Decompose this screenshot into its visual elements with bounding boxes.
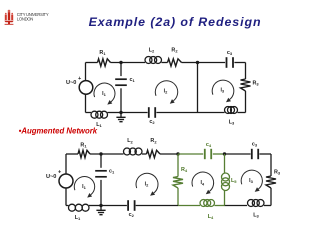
- wire: right edge lower segment (circuit 2): [270, 188, 272, 206]
- capacitor C2 (circuit 2): [128, 200, 135, 211]
- wire: L2 to R2: [162, 62, 168, 64]
- inductor L5 (circuit 2): [222, 173, 230, 191]
- wire: right edge lower segment (circuit 1): [245, 91, 247, 113]
- logo crest: [4, 10, 13, 24]
- wire: L1 to bottom-left corner (circuit 1): [86, 112, 92, 114]
- plus polarity mark (circuit 2): [58, 170, 62, 176]
- capacitor C3 (circuit 2): [252, 149, 258, 159]
- svg-text:L3: L3: [229, 120, 235, 126]
- label L3 (circuit 2): [253, 212, 259, 218]
- wire: R2 to node B: [182, 62, 198, 64]
- inductor L2 (circuit 1): [145, 57, 162, 64]
- label L5 (circuit 2): [231, 178, 237, 184]
- label R1 (circuit 2): [80, 143, 87, 149]
- svg-text:U~0: U~0: [66, 80, 76, 86]
- capacitor C1 (circuit 2): [95, 171, 107, 177]
- resistor R4 branch: upper wire (green, circuit 2): [177, 154, 179, 177]
- loop current I3 arrow (circuit 1): [212, 80, 234, 102]
- svg-text:L3: L3: [253, 212, 259, 218]
- svg-text:I4: I4: [200, 180, 204, 186]
- wire: C1 branch upper (circuit 2): [100, 154, 102, 168]
- node A junction dot (circuit 1): [119, 61, 122, 64]
- wire: R2 to node D (circuit 2): [160, 153, 178, 155]
- wire: R1 to node A: [111, 62, 146, 64]
- wire: ground node to L1 (circuit 1): [108, 112, 122, 114]
- wire: ground node to L1 (circuit 2): [89, 205, 101, 207]
- wire: L3 to node G (circuit 2): [225, 205, 248, 207]
- wire: L1 to bottom-left corner (circuit 2): [66, 205, 69, 207]
- inductor L3 (circuit 2): [248, 200, 265, 207]
- inductor L4 (circuit 2): [200, 200, 215, 207]
- loop current I4 arrow (circuit 2): [192, 172, 214, 194]
- wire: node E to C3 (circuit 2): [225, 153, 251, 155]
- label L1 (circuit 1): [96, 122, 102, 128]
- wire: left edge upper segment (circuit 2): [65, 154, 67, 174]
- svg-text:+: +: [78, 76, 82, 82]
- svg-text:+: +: [58, 170, 62, 176]
- capacitor C1 (circuit 1): [115, 79, 127, 85]
- loop current I2 arrow (circuit 1): [155, 81, 177, 104]
- svg-text:LONDON: LONDON: [17, 17, 33, 22]
- wire: C2 to ground node (circuit 2): [101, 205, 127, 207]
- svg-text:L2: L2: [149, 48, 155, 54]
- label R1 (circuit 1): [99, 50, 106, 56]
- wire: right edge upper segment (circuit 2): [270, 154, 272, 176]
- svg-text:R3: R3: [274, 170, 281, 176]
- svg-text:c3: c3: [252, 142, 258, 148]
- wire: C1 branch lower (circuit 1): [120, 88, 122, 112]
- wire: mid branch to C2 (circuit 1): [156, 112, 197, 114]
- wire: R1 to node C (circuit 2): [90, 153, 124, 155]
- wire: left edge upper segment (circuit 1): [85, 63, 87, 81]
- resistor R2 (circuit 2): [147, 150, 161, 157]
- wire: node B to C3: [198, 62, 226, 64]
- label I3 (circuit 1): [220, 88, 224, 94]
- capacitor C2 (circuit 1): [149, 107, 155, 118]
- svg-text:U~0: U~0: [46, 174, 56, 180]
- resistor R4 (circuit 2): [173, 177, 183, 189]
- wire: c1 top-left corner to R1: [86, 62, 98, 64]
- wire: bottom-right corner to L3 (circuit 2): [264, 205, 271, 207]
- ground node junction dot (circuit 2): [99, 204, 102, 207]
- capacitor C4 (circuit 2): [205, 149, 211, 159]
- svg-text:c3: c3: [227, 50, 233, 56]
- wire: R4 branch lower (green, circuit 2): [177, 188, 179, 206]
- label L2 (circuit 1): [149, 48, 155, 54]
- svg-text:L5: L5: [231, 178, 237, 184]
- resistor R1 (circuit 2): [78, 150, 90, 157]
- svg-text:R4: R4: [181, 167, 188, 173]
- wire: L2 to R2 (circuit 2): [142, 153, 147, 155]
- voltage source U~0 (circuit 2): [59, 174, 73, 188]
- label C3 (circuit 1): [227, 50, 233, 56]
- svg-text:R2: R2: [171, 48, 178, 54]
- wire: C1 branch upper (circuit 1): [120, 63, 122, 77]
- ground node junction dot (circuit 1): [119, 111, 122, 114]
- wire: node D to C4 (green, circuit 2): [178, 153, 203, 155]
- wire: L5 branch lower (green, circuit 2): [224, 191, 226, 206]
- svg-text:Example (2a) of Redesign: Example (2a) of Redesign: [89, 15, 262, 29]
- svg-text:L2: L2: [127, 138, 133, 144]
- plus polarity mark (circuit 1): [78, 76, 82, 82]
- label I1 (circuit 2): [82, 184, 86, 190]
- loop current I3 arrow (circuit 2): [241, 170, 262, 192]
- svg-text:R1: R1: [99, 50, 106, 56]
- voltage source U~0 (circuit 1): [79, 81, 93, 95]
- svg-text:L1: L1: [75, 215, 81, 221]
- wire: C2 to ground node (circuit 1): [121, 112, 148, 114]
- title: Example (2a) of Redesign: [89, 15, 262, 29]
- svg-text:I1: I1: [102, 91, 106, 97]
- wire: node F to C2 (circuit 2): [136, 205, 178, 207]
- loop current I2 arrow (circuit 2): [136, 173, 158, 195]
- loop current I1 arrow (circuit 2): [74, 176, 94, 197]
- svg-text:c1: c1: [130, 77, 136, 83]
- svg-text:R3: R3: [253, 81, 260, 87]
- label L3 (circuit 1): [229, 120, 235, 126]
- logo text CITY UNIVERSITY LONDON: [17, 12, 49, 22]
- label R3 (circuit 2): [274, 170, 281, 176]
- label C1 (circuit 2): [109, 169, 115, 175]
- label C4 (circuit 2): [206, 142, 212, 148]
- wire: middle vertical branch (circuit 1): [197, 63, 199, 113]
- svg-text:c2: c2: [129, 212, 135, 218]
- wire: bottom-right corner to L3: [238, 112, 246, 114]
- label C2 (circuit 1): [149, 119, 155, 125]
- wire: node G to L4 (green, circuit 2): [215, 205, 225, 207]
- inductor L5 branch: upper wire (green, circuit 2): [224, 154, 226, 173]
- ground symbol (circuit 2): [96, 206, 105, 215]
- inductor L1 (circuit 1): [91, 111, 108, 118]
- label I1 (circuit 1): [102, 91, 106, 97]
- label C3 (circuit 2): [252, 142, 258, 148]
- wire: C1 branch lower (circuit 2): [100, 180, 102, 206]
- wire: C3 to top-right corner (circuit 2): [259, 153, 271, 155]
- wire: right edge upper segment (circuit 1): [245, 63, 247, 80]
- wire: L4 to node F (green, circuit 2): [178, 205, 200, 207]
- label R3 (circuit 1): [253, 81, 260, 87]
- svg-text:c1: c1: [109, 169, 115, 175]
- label C2 (circuit 2): [129, 212, 135, 218]
- inductor L2 (circuit 2): [124, 148, 143, 155]
- svg-text:I1: I1: [82, 184, 86, 190]
- svg-text:I2: I2: [164, 89, 168, 95]
- svg-text:I3: I3: [220, 88, 224, 94]
- node D junction dot (circuit 2): [176, 152, 179, 155]
- wire: C4 to node E (green, circuit 2): [213, 153, 225, 155]
- resistor R1 (circuit 1): [98, 59, 111, 66]
- svg-text:I3: I3: [249, 178, 253, 184]
- svg-text:c2: c2: [149, 119, 155, 125]
- label I3 (circuit 2): [249, 178, 253, 184]
- label I2 (circuit 2): [145, 182, 149, 188]
- label L1 (circuit 2): [75, 215, 81, 221]
- label U~0 (circuit 2): [46, 174, 56, 180]
- wire: left edge lower segment (circuit 1): [85, 94, 87, 112]
- ground symbol (circuit 1): [116, 113, 125, 122]
- label R4 (circuit 2): [181, 167, 188, 173]
- label C1 (circuit 1): [130, 77, 136, 83]
- wire: L3 to mid branch (circuit 1): [198, 112, 225, 114]
- svg-text:L1: L1: [96, 122, 102, 128]
- label R2 (circuit 2): [150, 138, 157, 144]
- label L2 (circuit 2): [127, 138, 133, 144]
- wire: left edge lower segment (circuit 2): [65, 188, 67, 206]
- svg-text:L4: L4: [208, 214, 214, 220]
- inductor L3 (circuit 1): [225, 107, 238, 114]
- svg-text:•Augmented Network: •Augmented Network: [19, 127, 98, 136]
- resistor R3 (circuit 1): [241, 79, 251, 91]
- loop current I1 arrow (circuit 1): [94, 83, 115, 105]
- svg-text:R1: R1: [80, 143, 87, 149]
- bullet heading: Augmented Network: [19, 127, 98, 136]
- svg-text:R2: R2: [150, 138, 157, 144]
- capacitor C3 (circuit 1): [227, 57, 234, 68]
- wire: c2 top-left corner to R1: [66, 153, 78, 155]
- inductor L1 (circuit 2): [69, 204, 90, 211]
- node C junction dot (circuit 2): [99, 152, 102, 155]
- node E junction dot (circuit 2): [223, 152, 226, 155]
- label I2 (circuit 1): [164, 89, 168, 95]
- label L4 (circuit 2): [208, 214, 214, 220]
- label U~0 (circuit 1): [66, 80, 76, 86]
- resistor R2 (circuit 1): [168, 59, 182, 66]
- label R2 (circuit 1): [171, 48, 178, 54]
- label I4 (circuit 2): [200, 180, 204, 186]
- wire: C3 to top-right corner: [234, 62, 245, 64]
- svg-text:c4: c4: [206, 142, 212, 148]
- svg-text:I2: I2: [145, 182, 149, 188]
- resistor R3 (circuit 2): [266, 176, 276, 188]
- node B junction dot (circuit 1): [196, 61, 199, 64]
